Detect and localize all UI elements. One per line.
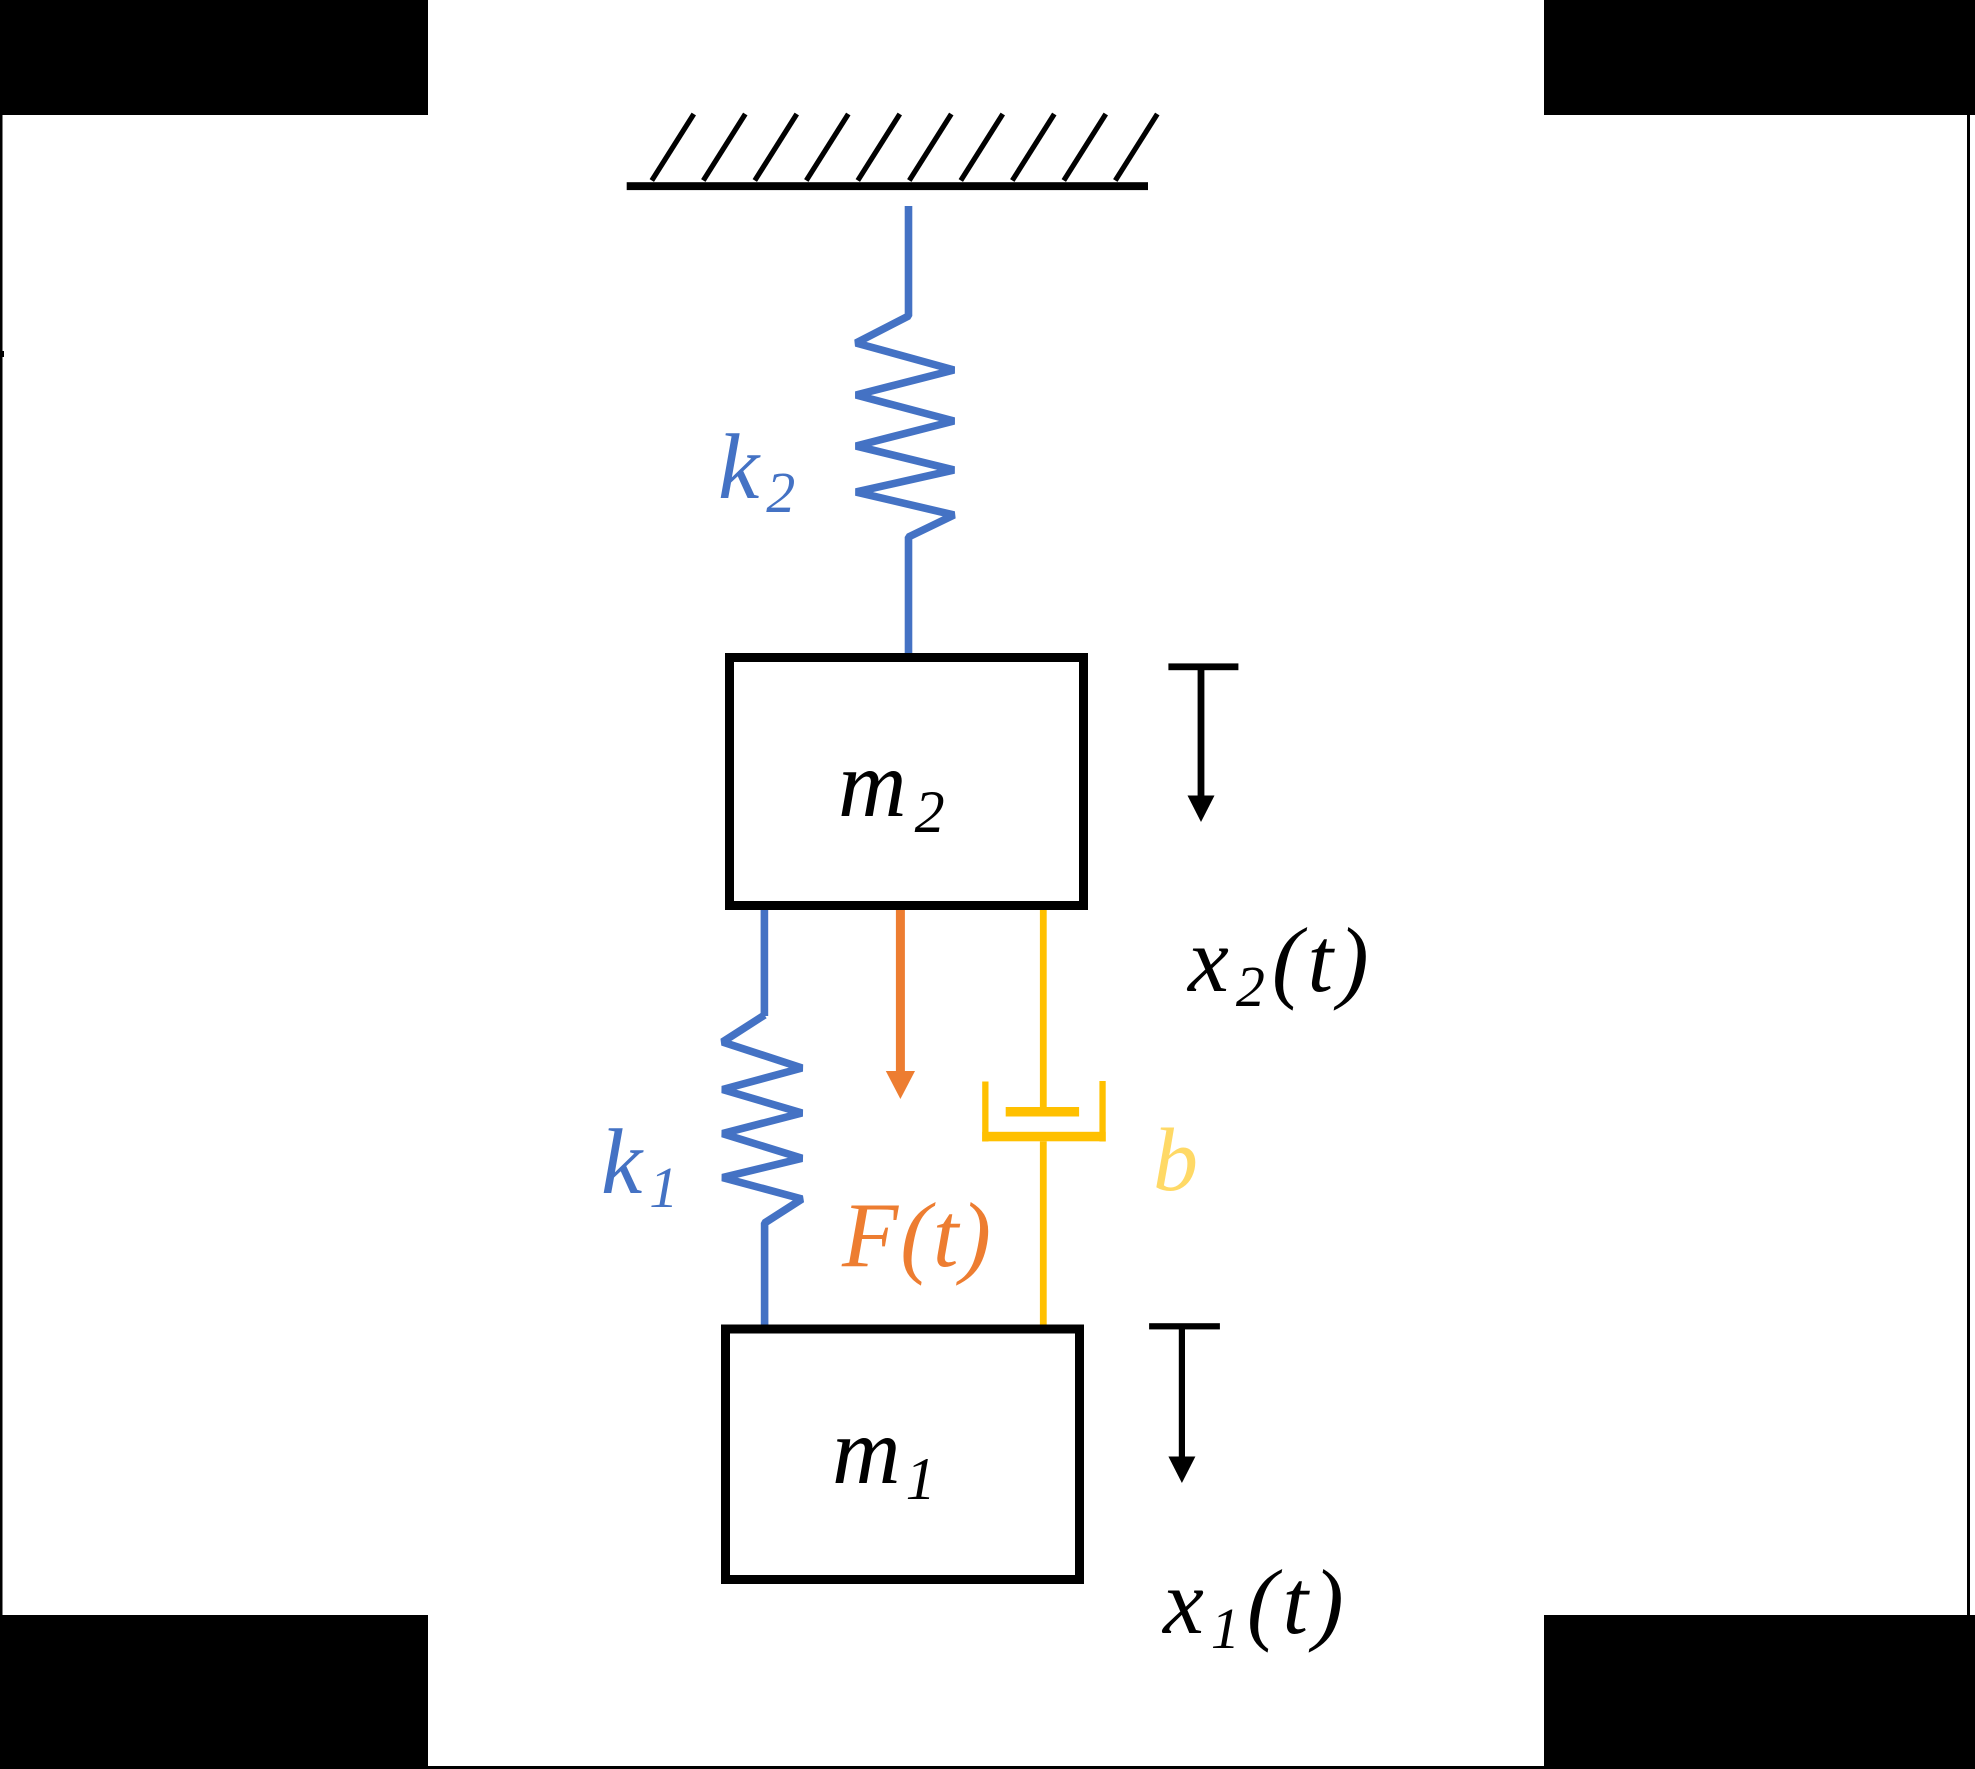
svg-text:b: b [1153, 1111, 1198, 1210]
svg-text:x1(t): x1(t) [1161, 1551, 1349, 1661]
svg-text:F(t): F(t) [841, 1184, 993, 1286]
svg-text:x2(t): x2(t) [1186, 909, 1374, 1019]
